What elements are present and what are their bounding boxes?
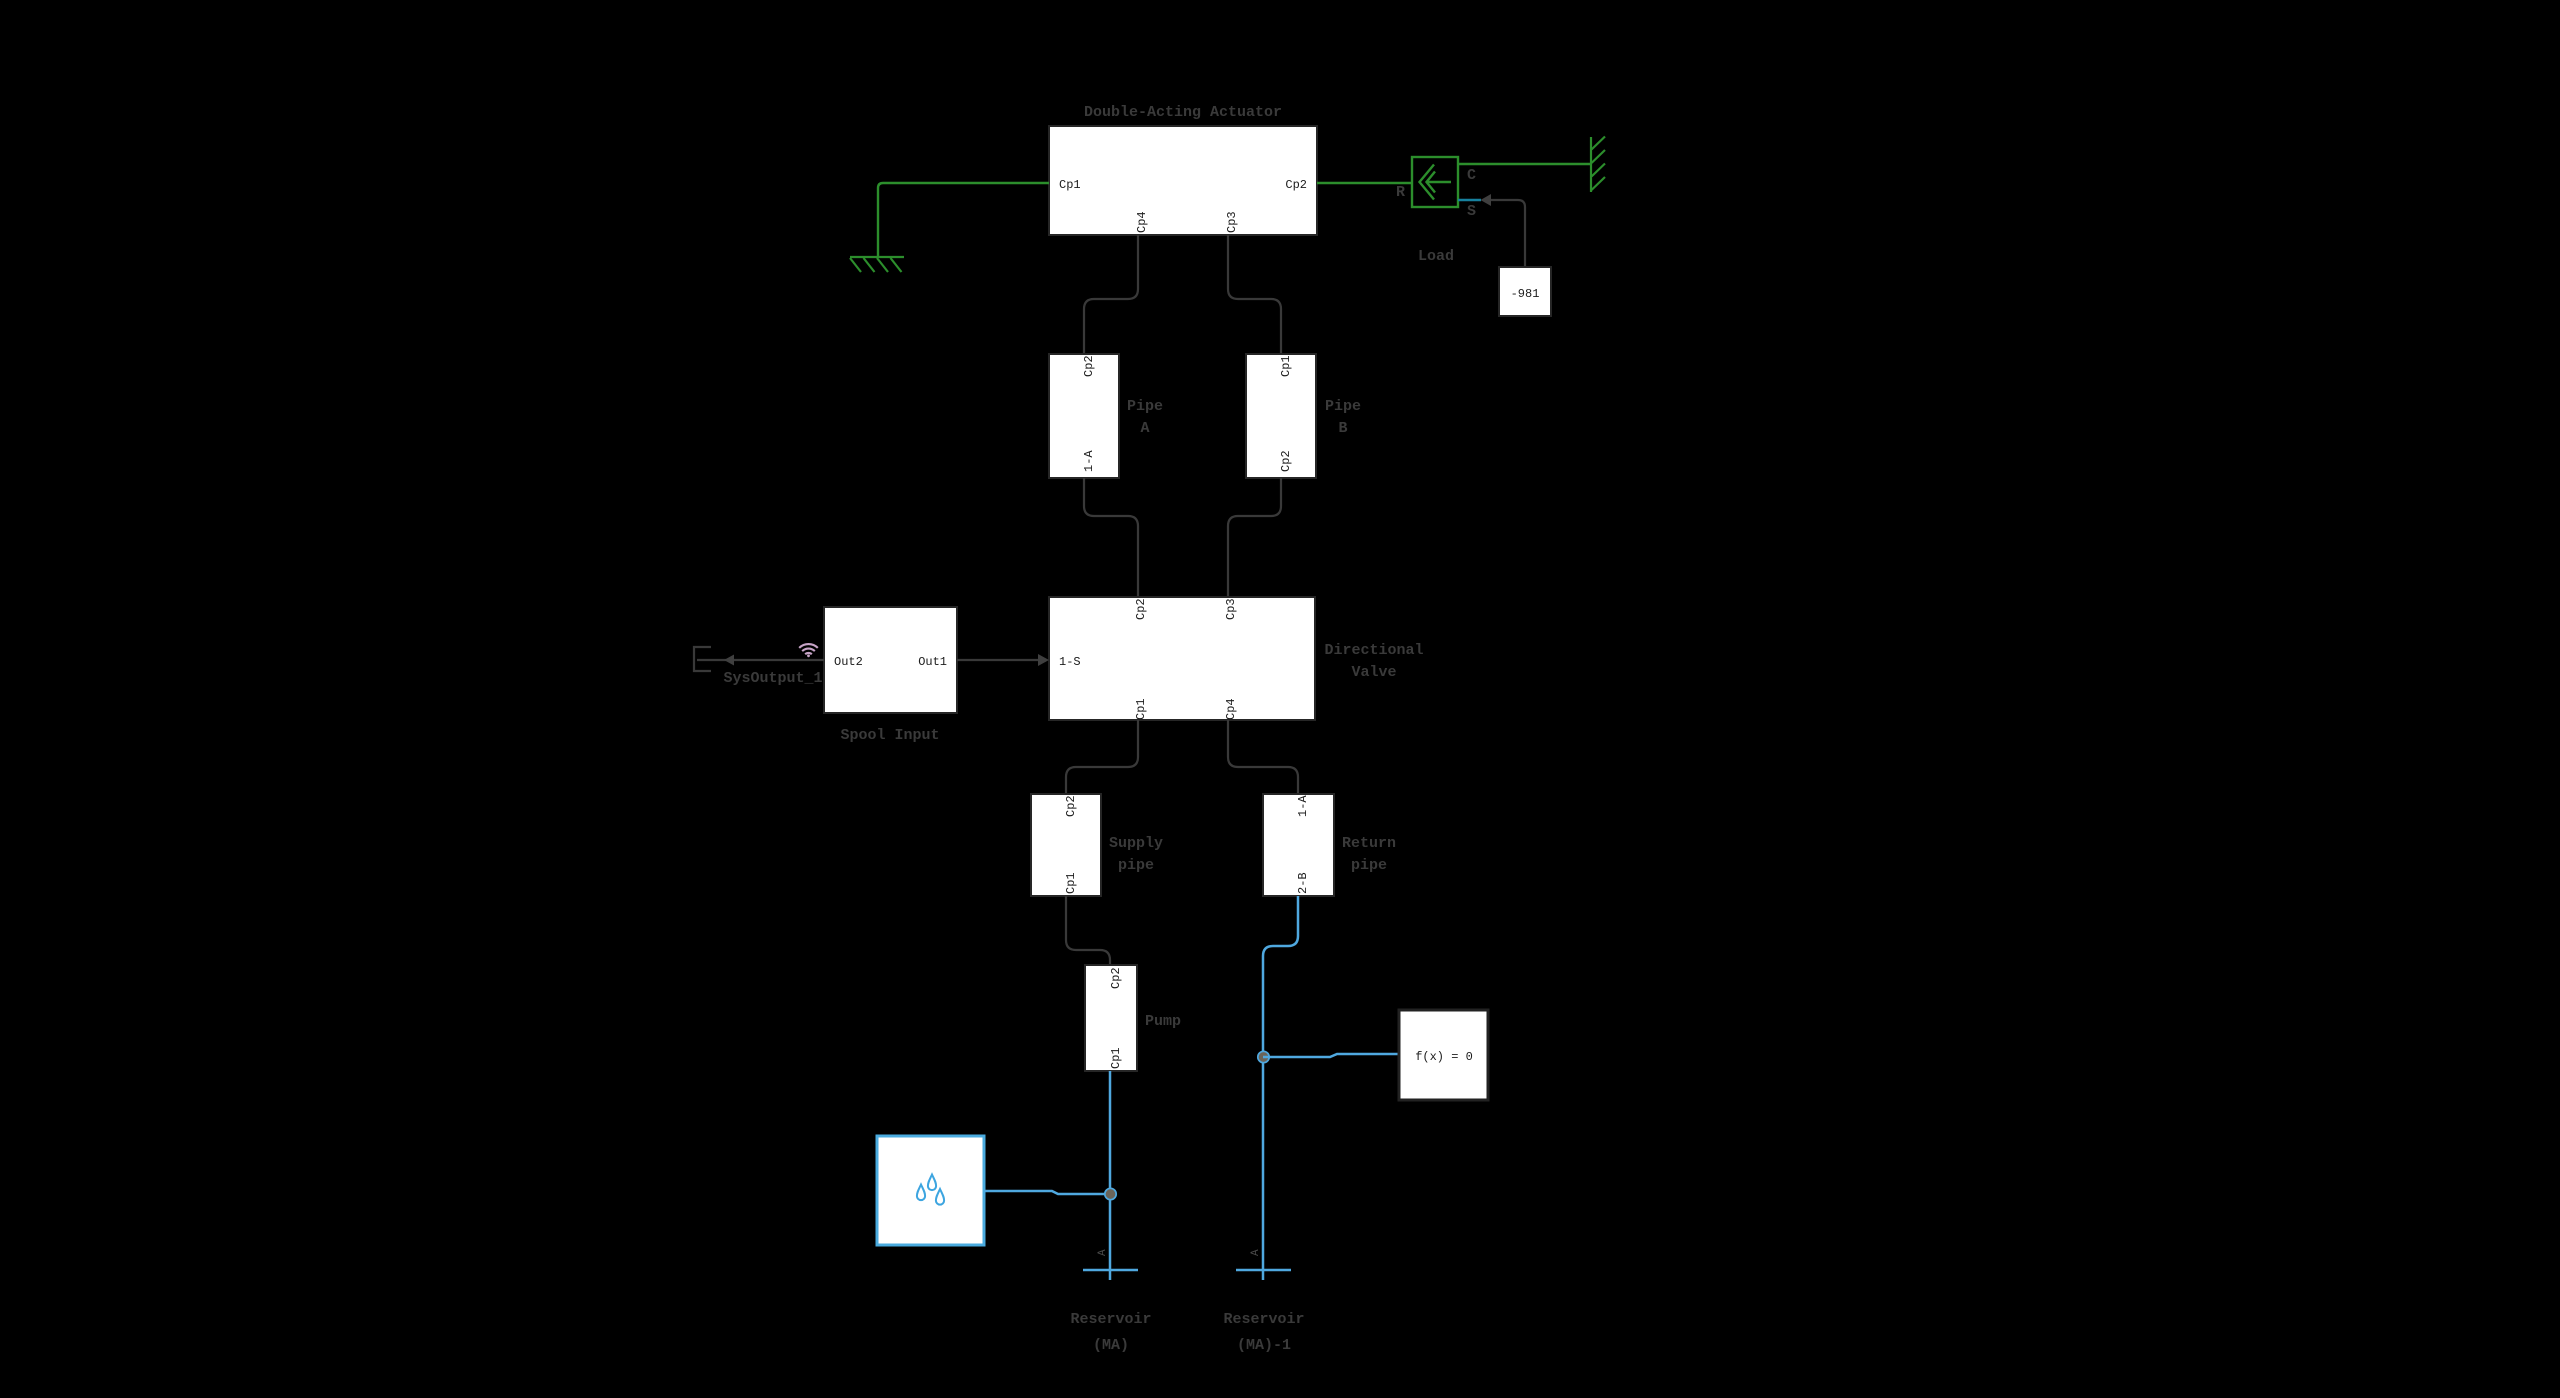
junction node at solver line [1258,1051,1269,1062]
svg-text:Cp1: Cp1 [1059,178,1081,192]
svg-text:Pump: Pump [1145,1013,1181,1030]
wire actuator Cp2 to load (green) [1317,182,1412,184]
svg-text:A: A [1097,1249,1109,1256]
svg-text:A: A [1140,420,1149,437]
svg-text:Cp3: Cp3 [1225,211,1239,233]
svg-text:C: C [1467,167,1476,184]
svg-text:Cp4: Cp4 [1224,698,1238,720]
wire return pipe to reservoir MA-1 (blue) [1263,896,1298,1280]
svg-text:S: S [1467,203,1476,220]
svg-text:Cp2: Cp2 [1134,598,1148,620]
solver configuration block f(x)=0 [1399,1010,1488,1100]
svg-text:Cp2: Cp2 [1082,355,1096,377]
svg-text:A: A [1250,1249,1262,1256]
icon double chevron with line [1420,165,1452,200]
wire pump to reservoir MA (blue) [1109,1071,1112,1280]
spool input block [824,607,957,713]
svg-text:Pipe: Pipe [1127,398,1163,415]
svg-text:Cp3: Cp3 [1224,598,1238,620]
svg-text:f(x) = 0: f(x) = 0 [1415,1050,1473,1064]
svg-text:Reservoir: Reservoir [1070,1311,1151,1328]
svg-text:Cp1: Cp1 [1279,355,1293,377]
physical signal stub at S port (teal) [1458,199,1481,202]
svg-text:Cp2: Cp2 [1064,795,1078,817]
svg-text:B: B [1338,420,1347,437]
svg-text:Cp2: Cp2 [1285,178,1307,192]
actuator U1 Double-Acting Actuator [1049,126,1317,235]
wire junction to solver block (blue) [1263,1054,1399,1057]
directional valve block [1049,597,1315,720]
svg-text:Supply: Supply [1109,835,1163,852]
pipe A block [1049,354,1119,478]
droplets [917,1175,944,1205]
svg-text:Cp1: Cp1 [1064,872,1078,894]
moist air source block (droplets) [877,1136,984,1245]
wall mechanical reference right [1591,137,1605,193]
svg-text:Cp2: Cp2 [1279,450,1293,472]
constant block -981 [1499,267,1551,316]
pipe B block [1246,354,1316,478]
svg-text:Spool Input: Spool Input [840,727,939,744]
wire valve Cp4 to return pipe [1228,720,1298,794]
wire pipe B to valve Cp3 [1228,478,1281,597]
svg-text:Out1: Out1 [918,655,947,669]
svg-text:pipe: pipe [1118,857,1154,874]
svg-text:2-B: 2-B [1296,872,1310,894]
svg-text:1-A: 1-A [1296,795,1310,817]
wire load C to wall (green) [1458,163,1590,165]
svg-text:-981: -981 [1511,287,1540,301]
svg-text:Directional: Directional [1324,642,1423,659]
wire droplet block to junction (blue) [984,1191,1110,1194]
svg-text:Cp1: Cp1 [1109,1047,1123,1069]
reservoir MA symbol [1083,1269,1138,1272]
signal wire Out1 to valve 1-S with arrowhead [957,659,1040,661]
wire pipe A to valve Cp2 [1084,478,1138,597]
load force source block [1412,157,1458,207]
svg-text:(MA)-1: (MA)-1 [1237,1337,1291,1354]
svg-text:1-S: 1-S [1059,655,1081,669]
signal wire Out2 to SysOutput connector [697,659,824,661]
signal wire -981 to S with arrowhead [1490,200,1525,267]
wifi logging badge [799,644,818,657]
svg-text:Out2: Out2 [834,655,863,669]
svg-text:(MA): (MA) [1093,1337,1129,1354]
svg-text:Pipe: Pipe [1325,398,1361,415]
hierarchical connector bracket [694,647,711,671]
pump block [1085,965,1137,1071]
wire actuator Cp3 to Pipe B [1228,235,1281,354]
junction node at pump line [1105,1188,1116,1199]
supply pipe block [1031,794,1101,896]
svg-text:Cp2: Cp2 [1109,967,1123,989]
svg-text:1-A: 1-A [1082,450,1096,472]
svg-text:pipe: pipe [1351,857,1387,874]
wire actuator Cp1 to ground (green) [878,183,1049,257]
svg-text:R: R [1396,184,1405,201]
svg-text:SysOutput_1: SysOutput_1 [723,670,822,687]
reservoir MA-1 symbol [1236,1269,1291,1272]
svg-text:Cp1: Cp1 [1134,698,1148,720]
svg-text:Reservoir: Reservoir [1223,1311,1304,1328]
return pipe block [1263,794,1334,896]
wire supply pipe to pump [1066,896,1110,965]
svg-text:Double-Acting Actuator: Double-Acting Actuator [1084,104,1282,121]
wire valve Cp1 to supply pipe [1066,720,1138,794]
svg-text:Cp4: Cp4 [1135,211,1149,233]
wire actuator Cp4 to Pipe A [1084,235,1138,354]
svg-text:Return: Return [1342,835,1396,852]
ground mechanical reference left [850,257,904,272]
svg-text:Valve: Valve [1351,664,1396,681]
svg-text:Load: Load [1418,248,1454,265]
